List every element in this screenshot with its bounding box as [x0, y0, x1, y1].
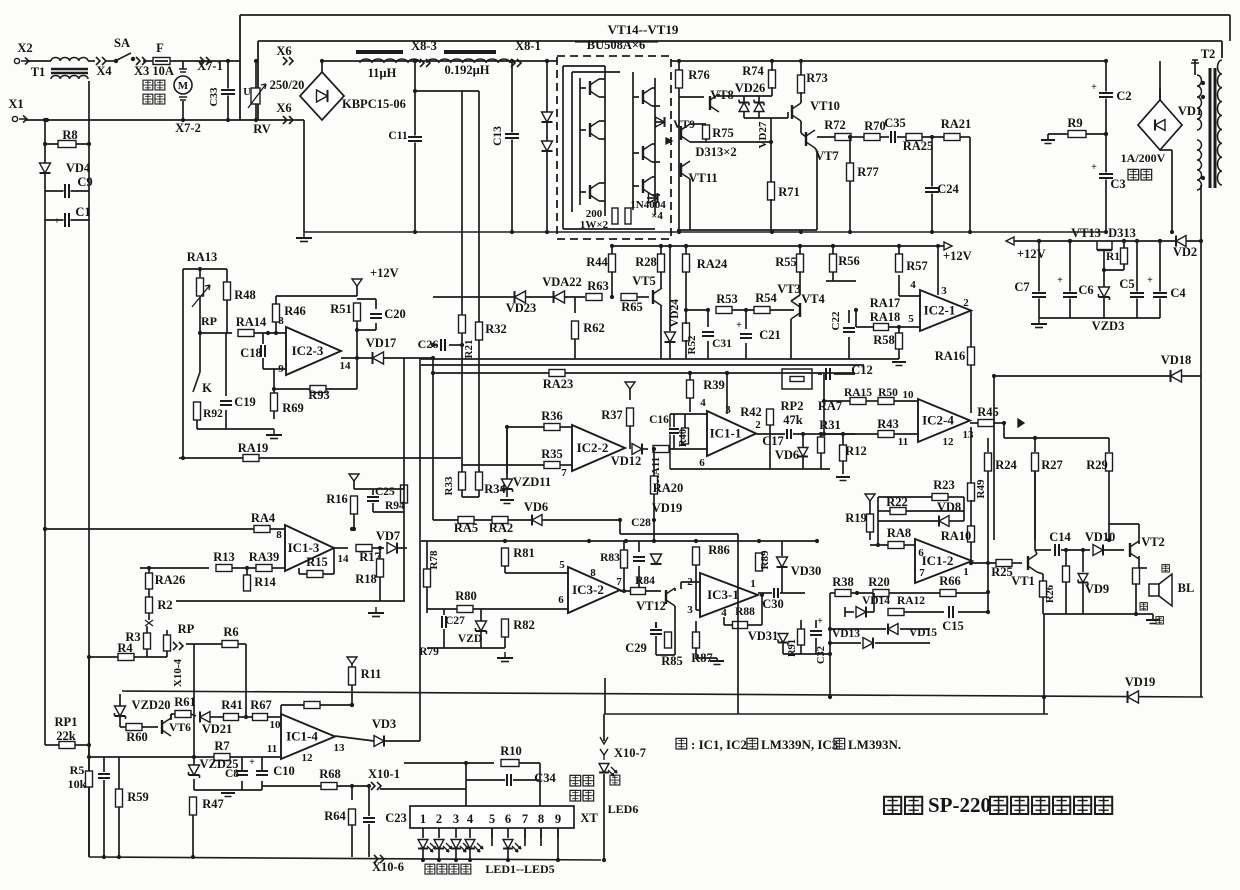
svg-text:+: +	[736, 320, 742, 331]
svg-text:R15: R15	[306, 555, 328, 569]
svg-text:VZD11: VZD11	[513, 475, 551, 489]
svg-text:C3: C3	[1110, 177, 1125, 191]
svg-text:11: 11	[898, 436, 908, 448]
svg-text:4: 4	[467, 812, 474, 826]
svg-text:C21: C21	[759, 328, 781, 342]
svg-text:R2: R2	[157, 598, 172, 612]
svg-text:C9: C9	[77, 175, 92, 189]
svg-text:13: 13	[334, 742, 346, 754]
svg-text:6: 6	[918, 547, 924, 559]
svg-text:VT1: VT1	[1011, 574, 1035, 588]
svg-text:R38: R38	[832, 575, 854, 589]
svg-text:VT11: VT11	[688, 171, 717, 185]
svg-text:R39: R39	[703, 378, 725, 392]
svg-text:VZD3: VZD3	[1092, 319, 1125, 333]
svg-text:C34: C34	[534, 771, 556, 785]
svg-text:R72: R72	[824, 118, 846, 132]
svg-text:VD24: VD24	[669, 299, 681, 327]
svg-text:R14: R14	[254, 575, 276, 589]
svg-text:VT5: VT5	[632, 274, 656, 288]
svg-text:13: 13	[963, 429, 975, 441]
svg-text:VD8: VD8	[937, 500, 961, 514]
svg-text:R21: R21	[463, 340, 475, 359]
svg-text:RA16: RA16	[935, 349, 966, 363]
svg-text:X1: X1	[8, 97, 23, 111]
svg-text:+: +	[1091, 162, 1097, 173]
svg-text:X10-6: X10-6	[372, 860, 404, 874]
svg-text:11: 11	[267, 743, 277, 755]
svg-text:R4: R4	[117, 641, 133, 655]
svg-text:8: 8	[590, 567, 596, 579]
svg-text:VDA22: VDA22	[542, 275, 582, 289]
svg-text:IC2-2: IC2-2	[577, 440, 609, 455]
svg-text:RA39: RA39	[249, 550, 280, 564]
svg-text:R43: R43	[877, 417, 899, 431]
svg-text:R57: R57	[906, 259, 928, 273]
svg-text:2: 2	[963, 297, 969, 309]
svg-text:R63: R63	[587, 279, 609, 293]
svg-text:IC1-1: IC1-1	[710, 426, 742, 441]
svg-text:C13: C13	[492, 126, 504, 146]
svg-text:C5: C5	[1119, 277, 1134, 291]
svg-text:RA26: RA26	[155, 573, 186, 587]
svg-text:T2: T2	[1201, 47, 1216, 61]
svg-text:R13: R13	[213, 550, 235, 564]
svg-text:0.192µH: 0.192µH	[444, 63, 489, 77]
svg-text:2: 2	[755, 419, 761, 431]
svg-text:C31: C31	[712, 338, 732, 350]
svg-text:R59: R59	[127, 790, 149, 804]
svg-text:R66: R66	[939, 574, 961, 588]
svg-text:IC1-3: IC1-3	[288, 540, 320, 555]
svg-text:R60: R60	[126, 730, 148, 744]
svg-text:+: +	[1147, 275, 1153, 286]
svg-text:LED6: LED6	[608, 802, 639, 816]
svg-text:8: 8	[538, 812, 544, 826]
svg-text:C7: C7	[1014, 280, 1029, 294]
svg-text:R28: R28	[635, 255, 657, 269]
svg-text:R70: R70	[864, 119, 886, 133]
svg-text:SP-220: SP-220	[928, 793, 991, 817]
svg-text:RP2: RP2	[781, 399, 804, 413]
svg-text:C25: C25	[375, 486, 395, 498]
svg-text:RA4: RA4	[251, 511, 276, 525]
svg-text:VT7: VT7	[815, 149, 839, 163]
svg-text:R32: R32	[485, 322, 507, 336]
svg-text:R24: R24	[995, 458, 1017, 472]
svg-text:VD6: VD6	[524, 500, 548, 514]
svg-text:C19: C19	[234, 395, 256, 409]
svg-text:D313: D313	[1108, 226, 1136, 240]
svg-text:C11: C11	[388, 130, 407, 142]
svg-text:R35: R35	[541, 447, 563, 461]
svg-text:VZD: VZD	[458, 633, 482, 645]
svg-text:R92: R92	[203, 408, 223, 420]
svg-text:C20: C20	[384, 307, 406, 321]
svg-text:12: 12	[943, 436, 955, 448]
svg-text:VT13: VT13	[1071, 226, 1101, 240]
svg-text:C14: C14	[1049, 530, 1071, 544]
svg-text:R1: R1	[1106, 251, 1120, 263]
svg-text:RA14: RA14	[236, 315, 267, 329]
svg-text:R48: R48	[234, 288, 256, 302]
svg-text:+: +	[54, 216, 60, 227]
svg-text:X6: X6	[276, 101, 291, 115]
svg-text:VD21: VD21	[202, 722, 233, 736]
svg-text:R77: R77	[857, 165, 879, 179]
svg-text:R75: R75	[712, 126, 734, 140]
svg-text:R56: R56	[838, 254, 860, 268]
svg-text:RP: RP	[201, 314, 217, 328]
svg-text:IC2-1: IC2-1	[924, 303, 956, 318]
svg-text:R49: R49	[975, 479, 987, 498]
svg-text:C27: C27	[445, 615, 465, 627]
svg-text:T1: T1	[31, 65, 46, 79]
svg-text:R80: R80	[455, 589, 477, 603]
svg-text:1: 1	[750, 578, 756, 590]
svg-text:R45: R45	[977, 405, 999, 419]
svg-text:7: 7	[522, 812, 528, 826]
svg-text:7: 7	[561, 467, 567, 479]
svg-text:R64: R64	[324, 809, 346, 823]
svg-text:R73: R73	[806, 71, 828, 85]
svg-text:R10: R10	[500, 744, 522, 758]
svg-text:R84: R84	[635, 575, 655, 587]
svg-text:3: 3	[687, 604, 693, 616]
svg-text:6: 6	[558, 594, 564, 606]
svg-text:R81: R81	[513, 546, 535, 560]
svg-text:R55: R55	[775, 255, 797, 269]
svg-text:X6: X6	[276, 44, 291, 58]
svg-text:KBPC15-06: KBPC15-06	[342, 97, 406, 111]
svg-text:RP1: RP1	[55, 715, 78, 729]
svg-text:VD19: VD19	[652, 501, 683, 515]
svg-text:IC3-2: IC3-2	[572, 582, 604, 597]
svg-text:R76: R76	[688, 68, 710, 82]
svg-text:R16: R16	[326, 492, 348, 506]
svg-text:R6: R6	[223, 625, 238, 639]
svg-text:VT14--VT19: VT14--VT19	[608, 22, 679, 37]
svg-text:R69: R69	[282, 401, 304, 415]
svg-text:1A/200V: 1A/200V	[1121, 151, 1166, 165]
svg-text:M: M	[178, 80, 189, 92]
svg-text:K: K	[202, 381, 212, 395]
svg-text:R78: R78	[428, 550, 440, 569]
svg-text:C24: C24	[937, 182, 959, 196]
svg-text:R74: R74	[742, 64, 764, 78]
svg-text:R47: R47	[202, 797, 224, 811]
svg-text:XT: XT	[580, 811, 598, 825]
svg-text:LED1--LED5: LED1--LED5	[485, 862, 554, 876]
svg-text:C23: C23	[385, 811, 407, 825]
svg-text:R11: R11	[361, 667, 382, 681]
svg-text:9: 9	[555, 812, 561, 826]
svg-text:X3 10A: X3 10A	[134, 64, 174, 78]
svg-text:6: 6	[699, 457, 705, 469]
svg-text:RA20: RA20	[653, 481, 684, 495]
svg-text:R85: R85	[661, 654, 683, 668]
svg-text:VT2: VT2	[1141, 535, 1165, 549]
svg-text:10k: 10k	[68, 777, 87, 791]
svg-text:R41: R41	[221, 698, 243, 712]
svg-text:R44: R44	[586, 255, 608, 269]
svg-text:VT12: VT12	[636, 599, 666, 613]
svg-text:VD9: VD9	[1085, 582, 1109, 596]
svg-text:1W×2: 1W×2	[580, 219, 609, 231]
svg-text:C33: C33	[208, 87, 220, 106]
svg-text:C32: C32	[816, 646, 827, 664]
svg-text:14: 14	[338, 553, 350, 565]
svg-text:VT4: VT4	[801, 292, 825, 306]
svg-text:VD26: VD26	[735, 81, 766, 95]
svg-text:7: 7	[919, 567, 925, 579]
svg-text:R26: R26	[1045, 585, 1056, 603]
svg-text:BU508A×6: BU508A×6	[587, 38, 646, 52]
svg-text:C29: C29	[625, 641, 647, 655]
svg-text:R5: R5	[70, 763, 85, 777]
svg-text:C16: C16	[649, 414, 669, 426]
svg-text:R29: R29	[1086, 458, 1108, 472]
svg-text:R89: R89	[759, 550, 771, 569]
svg-text:1: 1	[963, 566, 969, 578]
svg-text:R53: R53	[716, 292, 738, 306]
svg-text:X4: X4	[96, 64, 112, 78]
svg-text:C35: C35	[884, 116, 906, 130]
svg-text:C2: C2	[1116, 89, 1131, 103]
svg-text:3: 3	[941, 285, 947, 297]
svg-text:3: 3	[453, 812, 459, 826]
svg-text:C26: C26	[418, 337, 439, 351]
svg-text:C4: C4	[1170, 286, 1186, 300]
svg-text:12: 12	[302, 752, 314, 764]
svg-text:VD1: VD1	[1178, 104, 1202, 118]
svg-text:VT10: VT10	[810, 99, 840, 113]
svg-text:VD13: VD13	[832, 628, 860, 640]
svg-text:R58: R58	[873, 333, 895, 347]
svg-text:+12V: +12V	[1017, 247, 1046, 261]
svg-text:C15: C15	[942, 619, 964, 633]
svg-text:R8: R8	[62, 128, 77, 142]
svg-text:R71: R71	[778, 185, 800, 199]
svg-text:R23: R23	[933, 478, 955, 492]
svg-text:C6: C6	[1078, 283, 1093, 297]
svg-text:R27: R27	[1041, 458, 1063, 472]
svg-text:R82: R82	[513, 618, 535, 632]
svg-text:VD7: VD7	[376, 529, 400, 543]
svg-text:R61: R61	[174, 695, 196, 709]
svg-text:R20: R20	[868, 575, 890, 589]
svg-text:5: 5	[489, 812, 495, 826]
svg-text:IC1-2: IC1-2	[922, 553, 954, 568]
svg-text:D313×2: D313×2	[695, 145, 736, 159]
svg-text:C28: C28	[631, 517, 651, 529]
svg-text:BL: BL	[1178, 581, 1195, 595]
svg-text:R19: R19	[845, 511, 867, 525]
svg-text:6: 6	[505, 812, 511, 826]
svg-text:C8: C8	[225, 768, 239, 780]
svg-text:R46: R46	[284, 304, 306, 318]
svg-text:F: F	[156, 41, 164, 55]
svg-text:VD19: VD19	[1125, 675, 1156, 689]
svg-text:RA12: RA12	[897, 595, 925, 607]
svg-text:RA24: RA24	[697, 257, 728, 271]
svg-text:C30: C30	[762, 597, 784, 611]
svg-text:2: 2	[436, 812, 442, 826]
svg-text:250/20: 250/20	[270, 78, 305, 92]
svg-text:2: 2	[687, 576, 693, 588]
svg-text:VD14: VD14	[862, 595, 890, 607]
svg-text:1: 1	[420, 812, 426, 826]
svg-text:+: +	[817, 616, 823, 627]
svg-text:RA13: RA13	[187, 250, 218, 264]
svg-text:VD4: VD4	[66, 161, 91, 175]
svg-text:R68: R68	[319, 767, 341, 781]
svg-text:: IC1, IC2: : IC1, IC2	[691, 737, 747, 752]
svg-text:R51: R51	[330, 302, 352, 316]
svg-text:10: 10	[270, 719, 282, 731]
svg-text:10: 10	[903, 389, 915, 401]
svg-text:VD2: VD2	[1173, 245, 1197, 259]
svg-text:VD6: VD6	[775, 448, 799, 462]
svg-text:R37: R37	[601, 408, 623, 422]
svg-text:R33: R33	[443, 476, 455, 495]
svg-text:4: 4	[700, 397, 706, 409]
svg-text:C1: C1	[75, 205, 90, 219]
svg-text:X8-3: X8-3	[411, 39, 437, 53]
svg-text:IC3-1: IC3-1	[707, 587, 739, 602]
svg-text:+: +	[1057, 275, 1063, 286]
svg-text:VT6: VT6	[169, 722, 191, 734]
svg-text:R93: R93	[308, 388, 330, 402]
svg-text:C18: C18	[240, 346, 262, 360]
svg-text:X10-1: X10-1	[368, 767, 400, 781]
svg-text:5: 5	[908, 313, 914, 325]
svg-text:VD17: VD17	[366, 336, 397, 350]
svg-text:+12V: +12V	[370, 266, 399, 280]
svg-text:R25: R25	[991, 565, 1013, 579]
svg-text:R31: R31	[819, 418, 841, 432]
svg-text:RA23: RA23	[543, 377, 574, 391]
svg-text:VD27: VD27	[757, 121, 769, 148]
svg-text:R83: R83	[600, 552, 620, 564]
svg-text:VT8: VT8	[710, 88, 734, 102]
svg-text:4: 4	[910, 279, 916, 291]
svg-text:RA2: RA2	[489, 521, 513, 535]
svg-text:R94: R94	[385, 500, 405, 512]
svg-text:VZD20: VZD20	[132, 698, 171, 712]
svg-text:R65: R65	[621, 300, 643, 314]
svg-text:R52: R52	[686, 335, 698, 354]
svg-text:RA21: RA21	[941, 117, 972, 131]
svg-text:R62: R62	[583, 321, 605, 335]
svg-text:X8-1: X8-1	[515, 39, 541, 53]
svg-text:R54: R54	[755, 291, 777, 305]
svg-text:VD31: VD31	[748, 629, 779, 643]
svg-text:C10: C10	[273, 764, 295, 778]
svg-text:IC1-4: IC1-4	[286, 729, 318, 744]
svg-text:U: U	[243, 87, 251, 98]
svg-text:R36: R36	[541, 409, 563, 423]
svg-text:R7: R7	[214, 739, 229, 753]
svg-text:VT3: VT3	[777, 282, 801, 296]
svg-text:X7-2: X7-2	[175, 121, 201, 135]
svg-text:8: 8	[276, 529, 282, 541]
svg-text:C22: C22	[830, 311, 842, 330]
svg-text:RA5: RA5	[454, 521, 478, 535]
svg-text:VT9: VT9	[673, 119, 695, 131]
svg-text:RA18: RA18	[870, 310, 901, 324]
svg-text:47k: 47k	[783, 413, 803, 427]
svg-text:SA: SA	[114, 36, 130, 50]
svg-text:R40: R40	[678, 429, 689, 447]
svg-text:R42: R42	[740, 405, 762, 419]
svg-text:VD18: VD18	[1161, 353, 1192, 367]
svg-text:LM393N.: LM393N.	[848, 737, 901, 752]
svg-text:11µH: 11µH	[368, 66, 397, 80]
svg-text:RA17: RA17	[870, 296, 901, 310]
svg-text:R18: R18	[355, 572, 377, 586]
svg-text:IC2-4: IC2-4	[922, 413, 954, 428]
svg-text:VD10: VD10	[1085, 530, 1116, 544]
svg-text:R67: R67	[250, 698, 272, 712]
svg-text:LM339N, IC3: LM339N, IC3	[761, 737, 839, 752]
svg-text:R12: R12	[845, 444, 867, 458]
svg-text:+12V: +12V	[943, 249, 972, 263]
svg-text:×4: ×4	[651, 210, 663, 222]
svg-text:RA10: RA10	[941, 529, 972, 543]
svg-text:VD12: VD12	[611, 454, 642, 468]
svg-text:X10-7: X10-7	[614, 746, 646, 760]
svg-text:5: 5	[559, 559, 565, 571]
svg-text:RP: RP	[178, 622, 195, 636]
svg-text:+: +	[1091, 82, 1097, 93]
svg-text:7: 7	[616, 576, 622, 588]
svg-text:VD23: VD23	[506, 301, 537, 315]
svg-text:RA8: RA8	[887, 526, 911, 540]
svg-text:C17: C17	[762, 434, 784, 448]
svg-text:R9: R9	[1067, 116, 1082, 130]
svg-text:R86: R86	[708, 543, 730, 557]
svg-text:IC2-3: IC2-3	[292, 343, 324, 358]
svg-text:+: +	[249, 757, 255, 768]
svg-text:X2: X2	[17, 41, 32, 55]
svg-text:X10-4: X10-4	[172, 658, 184, 687]
svg-text:RV: RV	[253, 122, 271, 136]
svg-text:14: 14	[340, 360, 352, 372]
svg-text:VD3: VD3	[372, 717, 396, 731]
svg-text:VD30: VD30	[791, 564, 822, 578]
svg-text:RA19: RA19	[238, 441, 269, 455]
